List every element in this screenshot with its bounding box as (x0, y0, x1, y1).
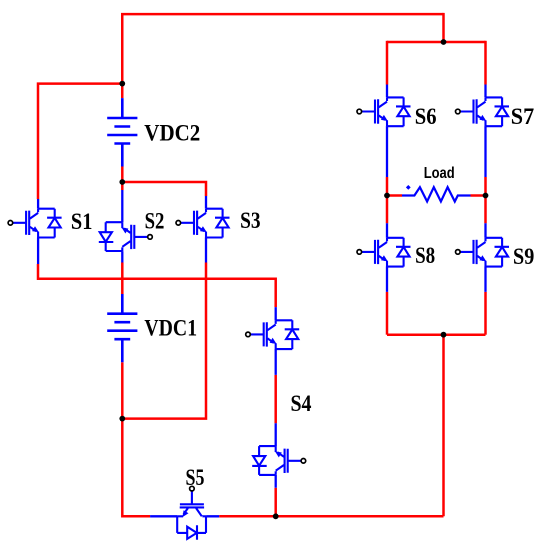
svg-text:S3: S3 (240, 208, 261, 233)
wire S9 emitter drop (484, 292, 487, 335)
svg-text:S4: S4 (291, 391, 312, 416)
wire load left stub (387, 194, 402, 197)
transistor S4 upper (246, 307, 300, 375)
wire VDC2 bottom junction to S3 collector (122, 182, 206, 196)
transistor S5 (150, 486, 219, 540)
wire S4 lower to bottom rail (274, 488, 277, 517)
battery VDC2 (107, 98, 137, 166)
wire S2 top stub (121, 182, 124, 190)
svg-text:S9: S9 (513, 244, 534, 269)
wire bottom rail right of S5 (219, 515, 443, 518)
svg-text:S6: S6 (415, 104, 437, 129)
svg-text:Load: Load (424, 165, 455, 182)
junction load left (384, 193, 390, 199)
battery VDC1 (107, 294, 137, 362)
transistor S9 (456, 223, 510, 292)
junction H-bridge bottom (441, 332, 447, 338)
svg-text:S5: S5 (186, 465, 205, 490)
wire H-bridge bottom rail (387, 333, 486, 336)
wire S4 emitter to S4 lower (274, 375, 277, 423)
resistor Load (402, 187, 471, 201)
junction VDC1 bottom (119, 416, 125, 422)
wire H-bridge top rail (387, 41, 486, 44)
transistor S6 (357, 85, 411, 178)
junction VDC2 bottom (119, 179, 125, 185)
transistor S2 (99, 190, 153, 263)
transistor S3 (176, 196, 230, 263)
svg-text:VDC2: VDC2 (144, 120, 200, 145)
svg-text:S1: S1 (71, 209, 93, 234)
wire S1 emitter rail to S4 (38, 264, 276, 307)
junction bottom rail S4 (273, 513, 279, 519)
wire S6 collector feed (386, 41, 389, 85)
wire S8 collector feed (386, 196, 389, 224)
svg-text:S8: S8 (415, 243, 435, 268)
junction H-bridge top (441, 39, 447, 45)
transistor S4 lower (252, 423, 306, 488)
wire VDC2 bottom lead red (121, 167, 124, 183)
wire S8 emitter drop (386, 292, 389, 335)
transistor S8 (357, 223, 411, 292)
svg-text:S7: S7 (511, 104, 534, 129)
wire bottom rail left of S5 (122, 417, 150, 516)
wire S7 emitter to load node (484, 177, 487, 196)
wire S2 bottom to VDC1 top (121, 263, 124, 295)
junction load right (483, 193, 489, 199)
svg-text:VDC1: VDC1 (144, 316, 197, 341)
junction VDC2 top (119, 81, 125, 87)
transistor S7 (456, 85, 510, 178)
wire VDC1 bottom junction to S3 emitter (122, 263, 206, 419)
wire S9 collector feed (484, 196, 487, 224)
wire VDC2 top junction to S1 collector (38, 84, 122, 199)
wire VDC1 bottom lead red (121, 362, 124, 418)
wire S6 emitter to load node (386, 177, 389, 196)
svg-text:S2: S2 (145, 209, 165, 234)
wire top rail (122, 14, 443, 98)
wire top rail right drop (442, 13, 445, 42)
wire H-bridge bottom to bottom rail (442, 335, 445, 517)
transistor S1 (8, 199, 62, 264)
load polarity diamond (406, 185, 411, 190)
wire load right stub (471, 194, 486, 197)
wire S7 collector feed (484, 41, 487, 85)
